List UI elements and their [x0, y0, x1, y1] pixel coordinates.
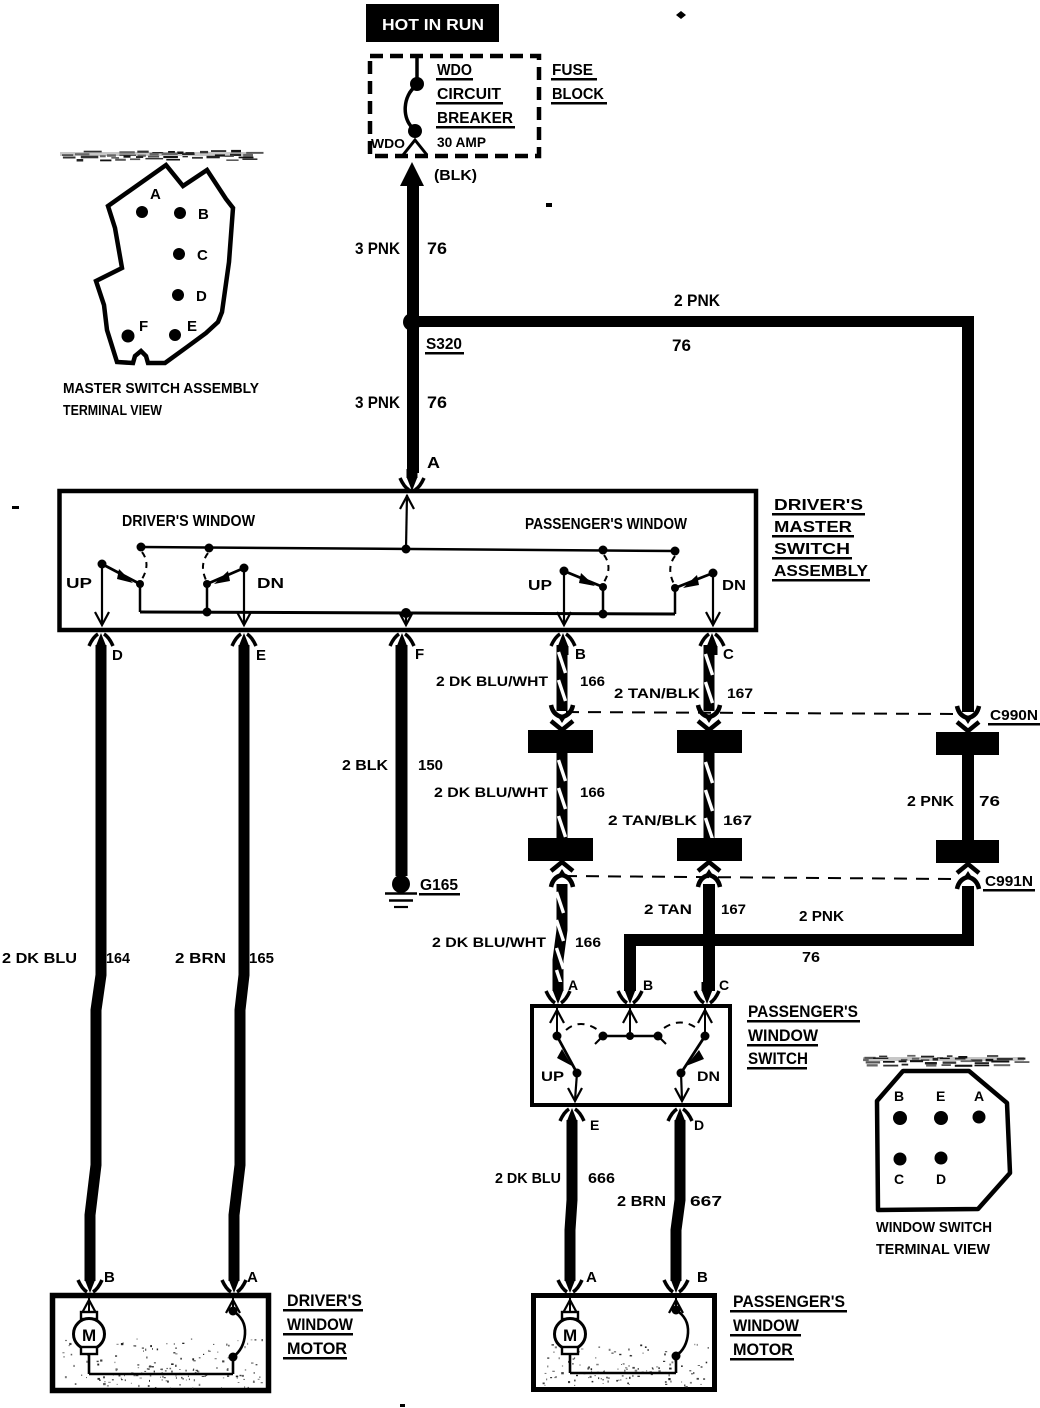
wire passenger DN to terminal C — [706, 577, 720, 625]
pin labels B E A C D (window switch view) — [894, 1088, 984, 1187]
label 2 TAN/BLK 167 (middle) — [608, 812, 752, 828]
scan smudge band (right) — [863, 1055, 1029, 1067]
svg-text:C990N: C990N — [990, 707, 1038, 724]
svg-text:ASSEMBLY: ASSEMBLY — [774, 563, 868, 580]
svg-text:MOTOR: MOTOR — [733, 1340, 793, 1359]
wire top feed rail — [141, 547, 675, 551]
label C991N — [983, 873, 1035, 892]
svg-text:167: 167 — [721, 901, 746, 917]
svg-text:2 TAN: 2 TAN — [644, 901, 692, 917]
svg-text:B: B — [575, 646, 586, 663]
label DRIVER'S WINDOW MOTOR — [283, 1291, 363, 1360]
svg-text:WINDOW: WINDOW — [733, 1316, 800, 1335]
svg-text:3 PNK: 3 PNK — [355, 239, 401, 258]
wire 2 TAN 167 (solid, to passenger switch C) — [703, 884, 715, 991]
motor speckle texture (driver) — [62, 1339, 262, 1390]
connector C991N dashed line — [564, 876, 952, 879]
svg-text:2 DK BLU: 2 DK BLU — [495, 1170, 561, 1187]
svg-text:76: 76 — [802, 949, 820, 966]
svg-text:2 BRN: 2 BRN — [617, 1193, 666, 1210]
terminal D crown — [89, 633, 113, 655]
terminal B crown — [551, 633, 575, 655]
label 2 DK BLU/WHT 166 (upper) — [436, 673, 605, 689]
stray speck — [676, 11, 686, 19]
motor M (driver) — [74, 1298, 105, 1354]
svg-text:D: D — [694, 1117, 704, 1133]
stray speck bottom — [400, 1404, 405, 1407]
label 3 PNK 76 (upper) — [355, 239, 447, 258]
svg-text:M: M — [82, 1326, 96, 1345]
wire contact risers to bottom rail (driver) — [140, 584, 207, 612]
svg-text:PASSENGER'S WINDOW: PASSENGER'S WINDOW — [525, 516, 688, 533]
svg-text:MOTOR: MOTOR — [287, 1339, 347, 1358]
svg-text:2 PNK: 2 PNK — [907, 793, 954, 810]
svg-text:WINDOW SWITCH: WINDOW SWITCH — [876, 1219, 992, 1236]
connector halves at C990N (wire C) — [698, 705, 720, 730]
crown at passenger motor B — [664, 1271, 688, 1293]
svg-text:167: 167 — [723, 812, 752, 828]
wire (inside fuse block, to breaker) — [415, 56, 419, 82]
connector block (2 PNK, upper) — [936, 732, 999, 755]
svg-text:76: 76 — [427, 239, 447, 258]
junction dots on feed rail — [137, 543, 680, 556]
svg-text:A: A — [586, 1269, 597, 1286]
svg-text:MASTER: MASTER — [774, 519, 853, 536]
wire rail to terminal F — [399, 612, 413, 625]
svg-text:2 DK BLU/WHT: 2 DK BLU/WHT — [434, 784, 549, 800]
svg-text:G165: G165 — [420, 877, 458, 894]
dashed alternate positions — [566, 1022, 699, 1030]
node HOT IN RUN supply tag — [366, 4, 499, 42]
window switch terminal view connector outline — [877, 1071, 1010, 1210]
svg-text:DRIVER'S: DRIVER'S — [287, 1291, 362, 1310]
stray speck left of master box — [12, 506, 19, 509]
fuse block dashed enclosure — [370, 56, 539, 156]
wire 2 BRN 667 — [676, 1120, 680, 1281]
connector halves at C991N (wire B) — [551, 862, 573, 887]
svg-text:HOT IN RUN: HOT IN RUN — [382, 17, 484, 34]
svg-text:DN: DN — [697, 1068, 720, 1084]
wire 3 PNK 76 from fuse block (arrow up) — [400, 162, 424, 322]
motor speckle texture (passenger) — [543, 1344, 709, 1388]
passenger window motor box — [534, 1296, 715, 1390]
terminal E crown — [232, 633, 256, 655]
svg-text:30 AMP: 30 AMP — [437, 134, 486, 150]
switch passenger UP contact (master) — [560, 555, 609, 591]
svg-text:SWITCH: SWITCH — [774, 541, 850, 558]
svg-text:165: 165 — [249, 950, 274, 967]
svg-text:2 DK BLU/WHT: 2 DK BLU/WHT — [432, 934, 547, 950]
svg-text:C991N: C991N — [985, 873, 1033, 890]
svg-text:76: 76 — [979, 793, 1000, 810]
label 2 PNK 76 (right) — [907, 793, 1000, 810]
wire 2 TAN/BLK 167 (middle, striped) — [704, 753, 715, 839]
svg-text:CIRCUIT: CIRCUIT — [437, 86, 501, 103]
svg-text:666: 666 — [588, 1170, 615, 1187]
svg-text:M: M — [563, 1326, 577, 1345]
connector halves at C990N (2 PNK wire) — [957, 706, 979, 731]
svg-text:TERMINAL VIEW: TERMINAL VIEW — [876, 1241, 991, 1258]
svg-text:2 PNK: 2 PNK — [799, 908, 844, 925]
label G165 — [419, 877, 460, 896]
svg-text:167: 167 — [727, 685, 753, 701]
svg-text:E: E — [590, 1117, 599, 1133]
svg-text:166: 166 — [580, 784, 605, 800]
label 2 BRN 165 — [175, 950, 274, 967]
svg-text:D: D — [196, 288, 207, 305]
connector block (wire B, upper) — [528, 730, 593, 753]
svg-text:2 TAN/BLK: 2 TAN/BLK — [608, 812, 697, 828]
label DRIVER'S MASTER SWITCH ASSEMBLY — [772, 497, 870, 582]
driver master switch assembly box — [60, 491, 757, 630]
label C990N — [988, 707, 1040, 726]
svg-text:2 DK BLU/WHT: 2 DK BLU/WHT — [436, 673, 548, 689]
scan smudge band (left) — [60, 150, 264, 162]
label FUSE BLOCK — [551, 62, 607, 105]
pin labels A-F (terminal view) — [139, 186, 209, 335]
stray speck near fuse — [546, 203, 552, 207]
motor M (passenger) — [555, 1298, 586, 1354]
label WDO CIRCUIT BREAKER 30 AMP — [436, 62, 515, 150]
wire driver UP to terminal D — [95, 568, 109, 625]
switch driver DN contact — [203, 553, 249, 588]
switch passenger DN blade — [677, 1032, 710, 1078]
svg-text:150: 150 — [418, 757, 443, 774]
ground G165 — [385, 875, 417, 907]
terminal dots A B C D E F (terminal view) — [122, 206, 187, 343]
wire 2 DK BLU/WHT 166 (lower, striped, to passenger switch A) — [557, 884, 564, 991]
wire motor loop (driver) — [89, 1298, 245, 1374]
junction dots on bottom rail — [203, 608, 608, 619]
svg-text:BLOCK: BLOCK — [552, 86, 604, 103]
svg-text:E: E — [936, 1088, 945, 1104]
wire DN contact to terminal D — [675, 1073, 689, 1101]
svg-text:WINDOW: WINDOW — [287, 1315, 354, 1334]
svg-text:B: B — [894, 1088, 904, 1104]
svg-text:BREAKER: BREAKER — [437, 110, 513, 127]
wire 2 BLK 150 (F to ground) — [396, 645, 408, 876]
connector C990N dashed line — [566, 712, 954, 714]
label 3 PNK 76 (lower) — [355, 393, 447, 412]
svg-text:C: C — [197, 247, 208, 264]
svg-text:D: D — [112, 647, 123, 664]
wire 2 PNK (right vertical drop) — [962, 316, 974, 712]
label 2 TAN 167 — [644, 901, 746, 917]
svg-text:E: E — [187, 318, 197, 335]
switch passenger UP blade — [553, 1032, 582, 1078]
connector block (wire B, lower) — [528, 838, 593, 861]
svg-text:WDO: WDO — [371, 136, 405, 151]
label 2 BLK 150 — [342, 757, 443, 774]
svg-text:A: A — [974, 1088, 984, 1104]
svg-text:F: F — [415, 646, 424, 663]
svg-text:2 DK BLU: 2 DK BLU — [2, 950, 77, 967]
svg-text:166: 166 — [575, 934, 601, 950]
wire 3 PNK 76 (lower, into master switch) — [407, 322, 419, 473]
svg-text:UP: UP — [66, 575, 92, 592]
svg-text:TERMINAL VIEW: TERMINAL VIEW — [63, 402, 163, 419]
wire 2 DK BLU 666 — [570, 1120, 572, 1281]
master switch assembly terminal view connector outline — [96, 165, 233, 363]
svg-text:DN: DN — [722, 577, 746, 594]
svg-text:A: A — [247, 1269, 258, 1286]
wire B riser (passenger switch) — [623, 1008, 637, 1036]
svg-text:(BLK): (BLK) — [434, 167, 477, 184]
svg-text:C: C — [719, 977, 729, 993]
label S320 — [425, 336, 464, 355]
svg-text:B: B — [643, 977, 653, 993]
label 2 DK BLU/WHT 166 (middle) — [434, 784, 605, 800]
connector crown at A entry — [400, 469, 424, 491]
label 2 DK BLU/WHT 166 (lower) — [432, 934, 601, 950]
svg-text:SWITCH: SWITCH — [748, 1049, 808, 1068]
label 2 DK BLU 666 — [495, 1170, 615, 1187]
wire passenger UP to terminal B — [557, 575, 571, 625]
svg-text:B: B — [198, 206, 209, 223]
connector halves at C991N (2 PNK wire) — [957, 864, 979, 889]
label 2 BRN 667 — [617, 1193, 722, 1210]
splice S320 — [403, 313, 421, 331]
svg-text:B: B — [104, 1269, 115, 1286]
connector block (wire C, upper) — [677, 730, 742, 753]
svg-text:2 BRN: 2 BRN — [175, 950, 226, 967]
wire 2 PNK 76 (between connectors) — [962, 755, 974, 840]
svg-text:2 PNK: 2 PNK — [674, 291, 721, 310]
svg-text:164: 164 — [106, 950, 131, 967]
svg-text:A: A — [568, 977, 578, 993]
wire feed crossbar — [595, 1032, 666, 1045]
crown at passenger switch C — [695, 982, 719, 1004]
svg-text:S320: S320 — [426, 336, 462, 353]
crown at passenger motor A — [558, 1271, 582, 1293]
crown at driver motor A — [222, 1271, 246, 1293]
passenger window switch box — [532, 1006, 730, 1105]
svg-text:WDO: WDO — [437, 62, 472, 79]
caption MASTER SWITCH ASSEMBLY TERMINAL VIEW — [63, 380, 259, 419]
wire 2 BRN 165 (E to driver motor A) — [234, 645, 244, 1281]
label 2 TAN/BLK 167 (upper) — [614, 685, 753, 701]
svg-text:166: 166 — [580, 673, 605, 689]
svg-text:D: D — [936, 1171, 946, 1187]
switch driver UP contact — [98, 552, 147, 588]
wire 2 PNK 76 (horizontal to right) — [412, 316, 974, 327]
svg-text:C: C — [723, 646, 734, 663]
wire motor loop (passenger) — [570, 1298, 688, 1373]
wire 2 DK BLU/WHT 166 (upper, striped) — [557, 645, 568, 711]
circuit breaker WDO 30 AMP — [403, 77, 427, 155]
connector halves at C990N (wire B) — [551, 705, 573, 730]
svg-text:2 TAN/BLK: 2 TAN/BLK — [614, 685, 700, 701]
label 2 DK BLU 164 — [2, 950, 131, 967]
svg-text:76: 76 — [427, 393, 447, 412]
svg-text:E: E — [256, 647, 266, 664]
wire 2 DK BLU/WHT 166 (middle, striped) — [557, 753, 568, 838]
connector block (wire C, lower) — [677, 838, 742, 861]
svg-text:PASSENGER'S: PASSENGER'S — [748, 1002, 858, 1021]
wire driver DN to terminal E — [237, 572, 251, 625]
svg-text:MASTER SWITCH ASSEMBLY: MASTER SWITCH ASSEMBLY — [63, 380, 259, 397]
crown at driver motor B — [78, 1271, 102, 1293]
svg-text:UP: UP — [528, 577, 552, 594]
terminal dots (window switch view) — [893, 1111, 986, 1166]
switch passenger DN contact (master) — [670, 556, 717, 592]
terminal C crown — [700, 633, 724, 655]
svg-text:DN: DN — [257, 575, 284, 592]
wire 2 PNK 76 (to passenger switch B) — [630, 886, 968, 991]
terminal D crown (passenger switch) — [668, 1108, 692, 1130]
wire UP contact to terminal E — [568, 1073, 582, 1101]
svg-text:DRIVER'S: DRIVER'S — [774, 497, 863, 514]
crown at passenger switch A — [546, 982, 570, 1004]
svg-text:B: B — [697, 1269, 708, 1286]
svg-text:A: A — [150, 186, 161, 203]
svg-text:FUSE: FUSE — [552, 62, 593, 79]
crown at passenger switch B — [618, 982, 642, 1004]
connector block (2 PNK, lower) — [936, 840, 999, 863]
svg-text:A: A — [427, 455, 440, 472]
label PASSENGER'S WINDOW SWITCH — [747, 1002, 860, 1070]
wire 2 TAN/BLK 167 (upper, striped) — [704, 645, 715, 711]
svg-text:UP: UP — [541, 1068, 564, 1084]
wire A riser inside box — [400, 495, 414, 549]
wire 2 DK BLU 164 (D to driver motor B) — [90, 645, 101, 1281]
wire A riser (passenger switch) — [550, 1008, 564, 1036]
terminal F crown — [390, 633, 414, 655]
svg-text:PASSENGER'S: PASSENGER'S — [733, 1292, 845, 1311]
wire contact risers to bottom rail (passenger) — [603, 587, 675, 614]
svg-text:WINDOW: WINDOW — [748, 1026, 819, 1045]
svg-text:DRIVER'S WINDOW: DRIVER'S WINDOW — [122, 513, 256, 530]
wire C riser (passenger switch) — [698, 1008, 712, 1036]
svg-text:2 BLK: 2 BLK — [342, 757, 388, 774]
terminal E crown (passenger switch) — [560, 1108, 584, 1130]
caption WINDOW SWITCH TERMINAL VIEW — [876, 1219, 992, 1258]
label PASSENGER'S WINDOW MOTOR — [730, 1292, 847, 1361]
connector halves at C991N (wire C) — [698, 862, 720, 887]
svg-text:667: 667 — [690, 1193, 722, 1210]
driver window motor box — [53, 1296, 269, 1391]
svg-text:76: 76 — [672, 336, 691, 355]
svg-text:F: F — [139, 318, 148, 335]
svg-text:C: C — [894, 1171, 904, 1187]
wire bottom common rail — [140, 612, 675, 614]
svg-text:3 PNK: 3 PNK — [355, 393, 401, 412]
